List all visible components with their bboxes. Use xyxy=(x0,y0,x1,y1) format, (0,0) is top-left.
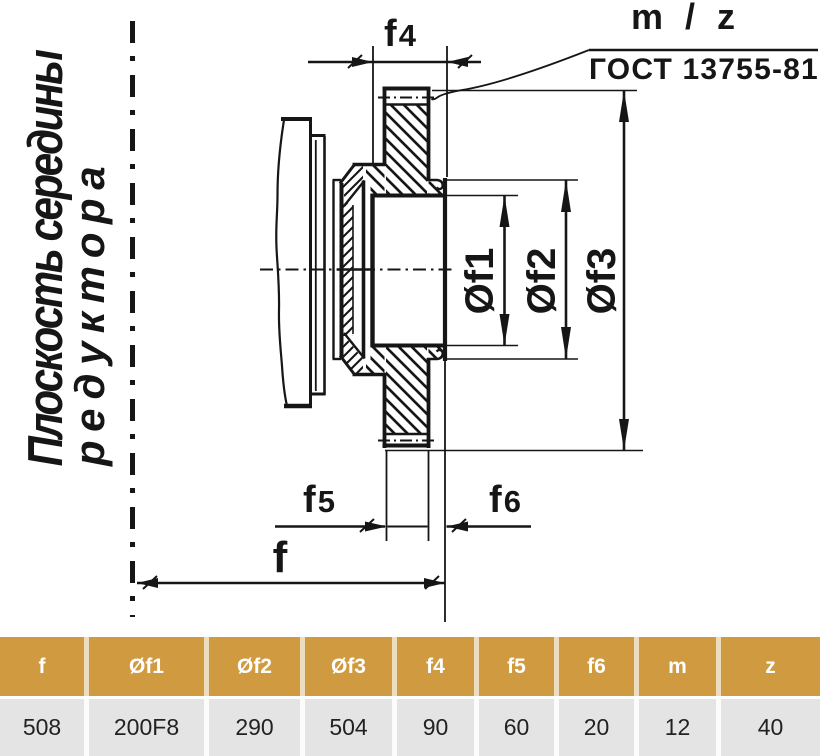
tooth root lines xyxy=(385,103,428,105)
m/z note xyxy=(589,0,819,86)
hub shoulder bottom xyxy=(427,350,443,359)
hub right face xyxy=(443,178,447,361)
svg-text:Øf3: Øf3 xyxy=(580,248,624,315)
gear rim outline xyxy=(383,87,431,448)
svg-text:редуктора: редуктора xyxy=(66,158,113,467)
white recess strip next to bore wall xyxy=(365,181,371,359)
drum flange strip xyxy=(312,136,326,396)
svg-text:m / z: m / z xyxy=(631,0,741,37)
dimension Of3 xyxy=(385,91,643,451)
arrow ticks xyxy=(143,55,472,589)
svg-text:f5: f5 xyxy=(303,479,337,521)
pitch lines xyxy=(378,97,435,99)
sleeve mid joint line xyxy=(337,268,371,271)
data table xyxy=(0,637,820,756)
svg-text:f6: f6 xyxy=(489,479,523,521)
gear axis centerline xyxy=(260,269,452,271)
note underline xyxy=(589,49,818,51)
reducer mid-plane axis line xyxy=(130,21,135,617)
drum disc with break line xyxy=(276,117,312,408)
sleeve hatch band xyxy=(343,203,354,336)
dimension Of1 xyxy=(447,196,518,346)
gear hatch: right boss bottom xyxy=(429,348,444,359)
sleeve hatch bottom corner xyxy=(342,337,364,374)
gear hatch: web left top xyxy=(366,166,385,194)
dimension f6 xyxy=(447,522,532,532)
dimension Of2 xyxy=(447,180,578,359)
gear hatch: right boss top xyxy=(429,182,444,195)
sleeve hatch top corner xyxy=(342,166,364,203)
svg-text:Плоскость середины: Плоскость середины xyxy=(17,49,73,466)
gear hatch: web left bottom xyxy=(366,348,385,375)
svg-text:f: f xyxy=(273,533,288,582)
gear bore xyxy=(371,194,446,347)
leader to pitch line xyxy=(432,50,590,99)
svg-text:Øf2: Øf2 xyxy=(520,248,564,315)
gear hatch: rim bottom xyxy=(386,348,427,434)
svg-text:ГОСТ 13755-81: ГОСТ 13755-81 xyxy=(589,53,819,86)
dimension f5 xyxy=(275,451,429,541)
spacer ring xyxy=(333,180,342,359)
svg-text:Øf1: Øf1 xyxy=(458,248,502,315)
dimension f xyxy=(137,361,445,622)
svg-text:f4: f4 xyxy=(384,13,418,55)
dimension f4 xyxy=(308,46,481,177)
plane label text xyxy=(17,49,113,467)
gear hatch: rim top xyxy=(386,105,427,194)
hub sleeve outline xyxy=(340,165,386,375)
hub shoulder top xyxy=(427,180,443,189)
